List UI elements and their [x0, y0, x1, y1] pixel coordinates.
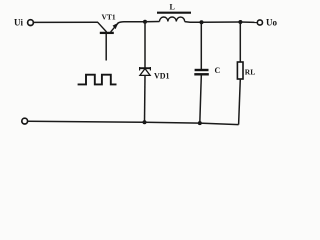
junction diode to bottom rail: [143, 120, 147, 124]
wire VD1 anode to bottom rail: [144, 75, 147, 122]
input terminal Ui: [28, 20, 34, 26]
resistor RL: [237, 62, 243, 79]
wire node A to VD1 cathode: [144, 22, 146, 68]
wire RL to bottom rail: [239, 79, 241, 125]
svg-text:L: L: [170, 3, 175, 12]
wire VT1 base: [105, 34, 107, 61]
svg-text:Ui: Ui: [14, 17, 23, 27]
diode VD1: [139, 67, 151, 75]
wire node B to capacitor C: [200, 22, 202, 69]
svg-text:Uo: Uo: [266, 18, 277, 28]
svg-text:RL: RL: [245, 67, 255, 76]
junction node C (RL top): [238, 20, 242, 24]
inductor L: [157, 13, 191, 22]
svg-text:C: C: [215, 66, 221, 75]
capacitor C: [194, 70, 209, 74]
junction node A (VD1 top): [143, 20, 147, 24]
output terminal Uo: [257, 20, 262, 25]
svg-text:VD1: VD1: [154, 72, 170, 81]
wire node B to node C: [202, 21, 241, 23]
wire capacitor to bottom rail: [200, 76, 202, 124]
wire node C to Uo: [240, 21, 257, 23]
svg-text:VT1: VT1: [102, 12, 116, 21]
wire inductor to node B: [185, 21, 202, 24]
junction capacitor to bottom rail: [198, 121, 202, 125]
bottom rail wire: [28, 121, 239, 124]
return terminal bottom-left: [22, 118, 28, 124]
wire node A to inductor: [145, 21, 160, 23]
wire VT1 emitter to node A: [118, 22, 145, 24]
wire node C to resistor RL: [239, 22, 241, 62]
junction node B (C top): [200, 20, 204, 24]
drive pulse waveform: [78, 75, 117, 85]
wire Ui to VT1 collector: [34, 21, 98, 23]
transistor VT1: [98, 22, 119, 33]
